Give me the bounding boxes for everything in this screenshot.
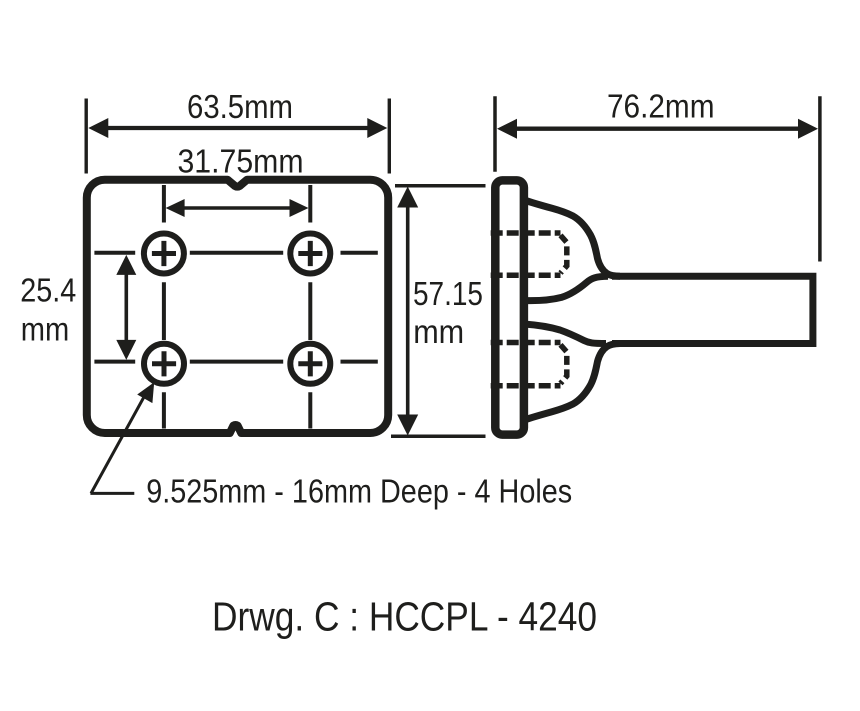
svg-text:25.4: 25.4 <box>20 271 76 308</box>
svg-text:Drwg. C : HCCPL - 4240: Drwg. C : HCCPL - 4240 <box>212 593 597 639</box>
svg-text:mm: mm <box>21 310 70 347</box>
svg-text:31.75mm: 31.75mm <box>178 143 304 180</box>
svg-text:76.2mm: 76.2mm <box>607 88 715 125</box>
svg-text:9.525mm - 16mm Deep - 4 Holes: 9.525mm - 16mm Deep - 4 Holes <box>146 473 572 510</box>
svg-text:mm: mm <box>413 313 464 350</box>
svg-text:63.5mm: 63.5mm <box>187 88 293 125</box>
svg-text:57.15: 57.15 <box>413 275 483 312</box>
